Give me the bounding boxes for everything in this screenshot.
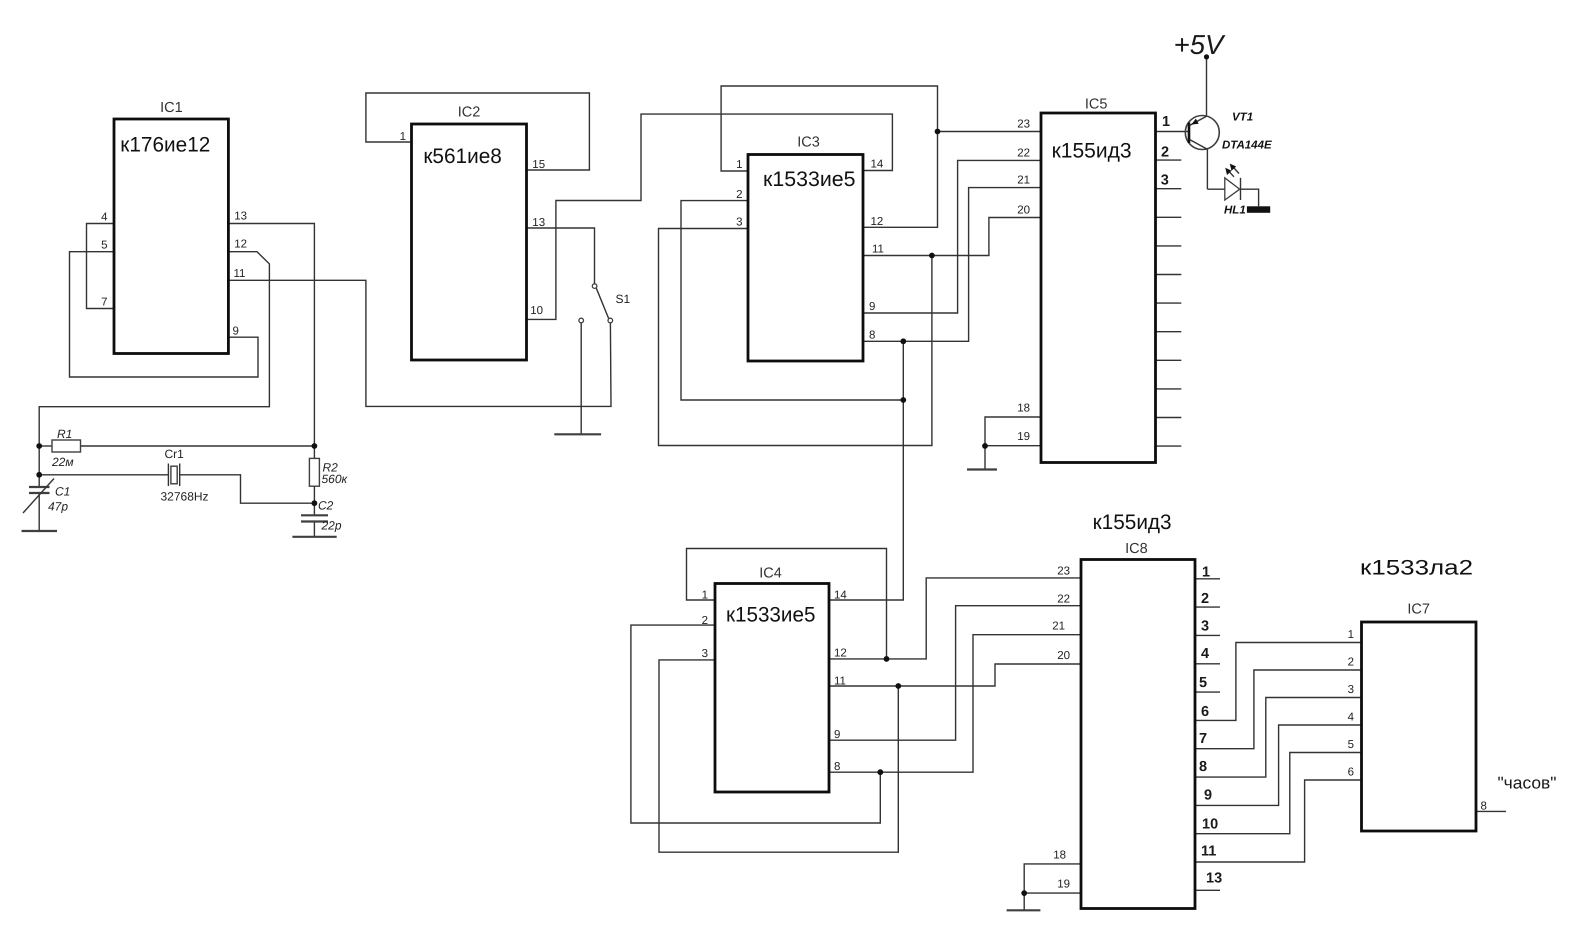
- svg-text:9: 9: [869, 301, 875, 313]
- svg-text:IC1: IC1: [160, 100, 183, 116]
- svg-text:14: 14: [871, 159, 884, 171]
- svg-text:19: 19: [1017, 431, 1030, 443]
- svg-text:12: 12: [871, 216, 884, 228]
- svg-text:3: 3: [1348, 684, 1354, 696]
- svg-text:3: 3: [1161, 173, 1169, 189]
- svg-text:9: 9: [1204, 788, 1212, 804]
- svg-text:2: 2: [1161, 144, 1169, 160]
- svg-text:22: 22: [1017, 148, 1030, 160]
- svg-text:3: 3: [736, 217, 742, 229]
- svg-text:к155ид3: к155ид3: [1052, 140, 1132, 163]
- svg-text:18: 18: [1017, 403, 1030, 415]
- svg-text:3: 3: [702, 648, 708, 660]
- svg-text:21: 21: [1052, 621, 1065, 633]
- svg-text:R1: R1: [57, 427, 72, 441]
- svg-text:15: 15: [532, 159, 545, 171]
- svg-text:1: 1: [400, 131, 406, 143]
- svg-text:32768Hz: 32768Hz: [161, 490, 209, 504]
- svg-text:2: 2: [1348, 657, 1354, 669]
- svg-text:5: 5: [1348, 739, 1354, 751]
- svg-text:22м: 22м: [51, 455, 74, 469]
- svg-text:1: 1: [702, 590, 708, 602]
- svg-text:C2: C2: [318, 499, 334, 513]
- svg-text:22: 22: [1057, 594, 1070, 606]
- svg-text:к1533ие5: к1533ие5: [726, 603, 816, 626]
- svg-text:11: 11: [234, 268, 246, 280]
- svg-text:к1533ие5: к1533ие5: [763, 168, 856, 191]
- svg-text:2: 2: [1201, 591, 1209, 607]
- svg-text:47p: 47p: [48, 500, 68, 514]
- svg-text:12: 12: [234, 239, 247, 251]
- svg-text:8: 8: [1199, 759, 1207, 775]
- svg-text:9: 9: [834, 729, 840, 741]
- svg-text:13: 13: [1206, 871, 1222, 887]
- svg-text:к561ие8: к561ие8: [423, 145, 502, 168]
- svg-text:14: 14: [834, 590, 847, 602]
- svg-text:8: 8: [834, 761, 840, 773]
- svg-text:Cr1: Cr1: [165, 447, 185, 461]
- svg-text:18: 18: [1053, 850, 1066, 862]
- svg-text:к155ид3: к155ид3: [1093, 511, 1172, 534]
- svg-text:3: 3: [1201, 619, 1209, 635]
- svg-text:C1: C1: [55, 485, 70, 499]
- svg-text:4: 4: [101, 212, 108, 224]
- svg-text:11: 11: [872, 244, 884, 256]
- svg-text:7: 7: [101, 297, 107, 309]
- svg-text:6: 6: [1348, 767, 1354, 779]
- svg-text:5: 5: [101, 240, 107, 252]
- svg-text:23: 23: [1057, 566, 1070, 578]
- svg-text:IC4: IC4: [759, 566, 782, 582]
- svg-text:1: 1: [1348, 629, 1354, 641]
- svg-text:HL1: HL1: [1224, 205, 1246, 217]
- svg-text:10: 10: [530, 305, 543, 317]
- svg-text:560к: 560к: [322, 472, 349, 486]
- svg-text:S1: S1: [616, 292, 631, 306]
- svg-text:4: 4: [1201, 646, 1209, 662]
- svg-text:8: 8: [1481, 801, 1487, 813]
- svg-text:"часов": "часов": [1498, 774, 1557, 793]
- svg-text:4: 4: [1348, 712, 1355, 724]
- svg-text:23: 23: [1017, 119, 1030, 131]
- svg-text:1: 1: [1202, 565, 1210, 581]
- svg-text:IC7: IC7: [1407, 602, 1430, 618]
- svg-text:+5V: +5V: [1174, 29, 1226, 60]
- svg-text:2: 2: [702, 615, 708, 627]
- svg-text:7: 7: [1199, 731, 1207, 747]
- svg-text:IC3: IC3: [797, 135, 820, 151]
- svg-text:20: 20: [1057, 650, 1070, 662]
- svg-text:2: 2: [736, 189, 742, 201]
- svg-text:1: 1: [736, 159, 742, 171]
- svg-text:IC2: IC2: [458, 105, 481, 121]
- svg-text:19: 19: [1057, 879, 1070, 891]
- svg-text:13: 13: [532, 217, 545, 229]
- svg-text:VT1: VT1: [1232, 112, 1253, 124]
- svg-text:20: 20: [1017, 205, 1030, 217]
- svg-text:10: 10: [1202, 817, 1218, 833]
- svg-text:9: 9: [233, 326, 239, 338]
- svg-text:6: 6: [1201, 704, 1209, 720]
- svg-text:12: 12: [834, 648, 847, 660]
- svg-text:к1533ла2: к1533ла2: [1360, 557, 1473, 580]
- svg-text:к176ие12: к176ие12: [120, 134, 210, 157]
- svg-text:IC5: IC5: [1085, 97, 1108, 113]
- svg-text:IC8: IC8: [1125, 541, 1148, 557]
- svg-text:21: 21: [1017, 175, 1030, 187]
- svg-text:5: 5: [1199, 675, 1207, 691]
- svg-text:13: 13: [234, 211, 247, 223]
- svg-text:1: 1: [1162, 114, 1170, 130]
- svg-text:22p: 22p: [321, 519, 342, 533]
- svg-text:11: 11: [834, 676, 846, 688]
- svg-text:11: 11: [1201, 844, 1216, 860]
- svg-text:8: 8: [869, 330, 875, 342]
- svg-text:DTA144E: DTA144E: [1222, 140, 1272, 152]
